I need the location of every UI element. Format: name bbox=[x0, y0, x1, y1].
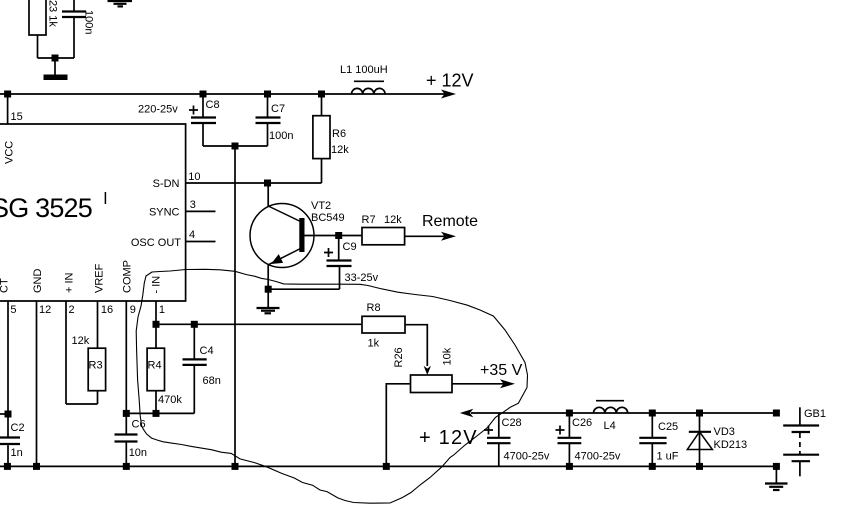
svg-text:10k: 10k bbox=[442, 347, 454, 365]
wire pin 5 lead bbox=[7, 301, 9, 414]
resistor R3 bbox=[88, 348, 105, 391]
resistor R23 bbox=[29, 0, 46, 35]
wire C7 top lead bbox=[267, 94, 269, 118]
node pin1 line C4 bbox=[191, 321, 198, 328]
node rail/C8 bbox=[200, 91, 207, 98]
node rail C2 bbox=[4, 463, 11, 470]
arrow Remote bbox=[441, 232, 456, 241]
svg-text:220-25v: 220-25v bbox=[138, 104, 178, 116]
wire R6 bottom lead bbox=[321, 159, 323, 183]
inductor L4 bbox=[596, 400, 624, 402]
node rail C6 bbox=[123, 463, 130, 470]
svg-text:12k: 12k bbox=[384, 214, 402, 226]
svg-text:C28: C28 bbox=[502, 417, 522, 429]
node ground link bbox=[232, 143, 239, 150]
transistor collector diagonal bbox=[268, 206, 300, 222]
svg-text:1n: 1n bbox=[11, 447, 23, 459]
svg-text:Remote: Remote bbox=[422, 213, 478, 230]
svg-text:9: 9 bbox=[130, 304, 136, 316]
wire R3 bottom lead bbox=[97, 391, 99, 404]
svg-text:SYNC: SYNC bbox=[149, 207, 180, 219]
capacitor C26 plus sign bbox=[556, 426, 565, 435]
node rail C25 bottom bbox=[649, 463, 656, 470]
inductor L1 bbox=[354, 80, 384, 82]
capacitor C8 plus sign bbox=[189, 106, 198, 115]
wire C28 bottom lead bbox=[498, 443, 500, 466]
node pin10/collector bbox=[264, 180, 271, 187]
wire C7 bottom lead bbox=[267, 123, 269, 146]
wire C9 top lead bbox=[338, 236, 340, 261]
capacitor C9 bbox=[327, 259, 352, 261]
node rail/pin15 bbox=[4, 91, 11, 98]
wire R4 bottom lead bbox=[155, 391, 157, 414]
svg-text:C2: C2 bbox=[11, 422, 25, 434]
node rail VD3 bottom bbox=[696, 463, 703, 470]
svg-text:OSC OUT: OSC OUT bbox=[131, 237, 181, 249]
op-amp/PWM IC U1 SG3525 box bbox=[0, 124, 186, 301]
capacitor C4 bbox=[183, 358, 207, 360]
capacitor C28 plus sign bbox=[484, 426, 493, 435]
svg-text:10: 10 bbox=[188, 171, 200, 183]
svg-text:KD213: KD213 bbox=[714, 439, 748, 451]
node emitter/C9 bbox=[265, 286, 272, 293]
wire lower link pin9-R4-C4 bbox=[126, 412, 194, 414]
arrow +35V bbox=[500, 379, 515, 388]
svg-text:33-25v: 33-25v bbox=[345, 272, 379, 284]
svg-text:L4: L4 bbox=[604, 420, 616, 432]
ground top (3-line) bbox=[108, 0, 133, 2]
svg-text:470k: 470k bbox=[158, 394, 182, 406]
capacitor 100n top-left bbox=[62, 10, 86, 12]
svg-text:12: 12 bbox=[39, 304, 51, 316]
wire C9 bottom lead bbox=[339, 266, 341, 289]
svg-text:+ 12V: + 12V bbox=[419, 427, 478, 449]
svg-text:R23 1k: R23 1k bbox=[47, 0, 59, 27]
svg-text:100n: 100n bbox=[269, 130, 293, 142]
svg-text:12k: 12k bbox=[72, 335, 90, 347]
svg-text:4: 4 bbox=[189, 229, 195, 241]
svg-text:1 uF: 1 uF bbox=[657, 451, 679, 463]
wire pin 16 lead bbox=[97, 301, 99, 348]
svg-text:1k: 1k bbox=[368, 338, 380, 350]
svg-text:C9: C9 bbox=[343, 241, 357, 253]
node output rail right end bbox=[773, 410, 780, 417]
svg-text:12k: 12k bbox=[331, 144, 349, 156]
svg-text:+35 V: +35 V bbox=[480, 362, 523, 379]
wire R23 bottom lead bbox=[37, 35, 39, 58]
transistor emitter diagonal bbox=[268, 249, 300, 265]
wire bottom ground rail bbox=[0, 465, 776, 467]
svg-text:5: 5 bbox=[10, 304, 16, 316]
diode VD3 bbox=[699, 413, 701, 466]
wire C2 top lead bbox=[7, 414, 9, 438]
svg-text:- IN: - IN bbox=[151, 276, 163, 294]
ground under transistor bbox=[267, 289, 269, 308]
svg-text:R3: R3 bbox=[89, 360, 103, 372]
svg-text:COMP: COMP bbox=[122, 260, 134, 293]
wire pin1 to R8 bbox=[156, 323, 362, 325]
capacitor C7 bbox=[256, 116, 281, 118]
svg-text:4700-25v: 4700-25v bbox=[504, 451, 550, 463]
svg-text:1: 1 bbox=[159, 304, 165, 316]
node rail VD3 top bbox=[696, 410, 703, 417]
wire pin 3 stub bbox=[186, 210, 216, 212]
svg-text:R8: R8 bbox=[367, 302, 381, 314]
svg-text:C25: C25 bbox=[658, 421, 678, 433]
svg-text:R26: R26 bbox=[393, 347, 405, 367]
wire C8 bottom lead bbox=[202, 123, 204, 146]
node rail C25 top bbox=[649, 410, 656, 417]
wire C26 top lead bbox=[568, 413, 570, 438]
arrow +12V bbox=[441, 90, 456, 99]
wire pin 9 lead bbox=[125, 301, 127, 435]
svg-text:100n: 100n bbox=[83, 10, 95, 34]
wire freeform feedback loop curve bbox=[136, 269, 527, 503]
wire C4 bottom lead bbox=[193, 365, 195, 414]
capacitor C8 bbox=[191, 116, 216, 118]
wire R23 to C100n bbox=[38, 57, 75, 59]
wire 100n bottom lead bbox=[73, 17, 75, 58]
wire long ground line bbox=[234, 146, 236, 466]
wire C25 top lead bbox=[651, 413, 653, 438]
transistor emitter arrow bbox=[271, 254, 283, 264]
arrow wiper down bbox=[424, 366, 431, 375]
svg-text:15: 15 bbox=[11, 111, 23, 123]
capacitor C28 bbox=[487, 437, 511, 439]
wire node to left edge bbox=[0, 413, 8, 415]
node pin5/C2 bbox=[5, 411, 12, 418]
svg-text:GB1: GB1 bbox=[804, 408, 826, 420]
node R4 bottom bbox=[153, 410, 160, 417]
wire C4 top lead bbox=[193, 324, 195, 359]
capacitor C6 bbox=[115, 433, 138, 435]
wire C25 bottom lead bbox=[651, 443, 653, 466]
node rail C26 bottom bbox=[566, 463, 573, 470]
svg-text:R4: R4 bbox=[148, 360, 162, 372]
node rail C26 top bbox=[566, 410, 573, 417]
node pin9/C6 bbox=[123, 410, 130, 417]
wire collector lead bbox=[267, 183, 269, 206]
cursor tick bbox=[104, 192, 106, 204]
wire 100n top lead bbox=[73, 0, 75, 12]
node rail/C7 bbox=[264, 91, 271, 98]
svg-text:C4: C4 bbox=[200, 345, 214, 357]
wire R8 right to wiper bbox=[405, 325, 427, 366]
capacitor C26 bbox=[558, 437, 582, 439]
wire pin 4 stub bbox=[186, 241, 216, 243]
wire C28 top lead bbox=[498, 413, 500, 438]
svg-text:4700-25v: 4700-25v bbox=[575, 451, 621, 463]
wire pin15 bbox=[7, 94, 9, 124]
wire pin 10 S-DN line bbox=[186, 182, 322, 184]
svg-text:SG 3525: SG 3525 bbox=[0, 193, 92, 223]
resistor R4 bbox=[147, 348, 164, 391]
wire pin 2 lead bbox=[65, 301, 67, 404]
resistor R6 bbox=[313, 116, 330, 159]
capacitor C25 bbox=[639, 437, 666, 439]
svg-text:GND: GND bbox=[32, 269, 44, 294]
wire C8-C7 ground link bbox=[203, 145, 268, 147]
svg-text:3: 3 bbox=[190, 199, 196, 211]
svg-text:+ IN: + IN bbox=[64, 272, 76, 293]
arrow left output rail bbox=[460, 409, 474, 417]
wire R7 to Remote arrow bbox=[405, 235, 445, 237]
node rail pin12 bbox=[33, 463, 40, 470]
node pot lead rail bbox=[383, 463, 390, 470]
node base/C9 bbox=[335, 232, 342, 239]
wire output rail bbox=[471, 412, 776, 414]
wire +12V top rail bbox=[0, 93, 445, 95]
node rail ground line bbox=[232, 463, 239, 470]
transistor base bar bbox=[299, 218, 304, 252]
svg-text:BC549: BC549 bbox=[311, 212, 345, 224]
capacitor C9 plus sign bbox=[324, 248, 333, 257]
svg-text:L1 100uH: L1 100uH bbox=[340, 64, 388, 76]
wire emitter to C9 bottom bbox=[268, 288, 339, 290]
svg-text:VD3: VD3 bbox=[714, 426, 735, 438]
node ground rail right end bbox=[773, 463, 780, 470]
potentiometer R26 bbox=[411, 375, 453, 393]
svg-text:R6: R6 bbox=[332, 128, 346, 140]
svg-text:68n: 68n bbox=[203, 375, 221, 387]
wire base to R7 bbox=[302, 235, 362, 237]
wire R6 top lead bbox=[321, 94, 323, 116]
svg-text:C26: C26 bbox=[572, 417, 592, 429]
wire pin2-R3 link bbox=[66, 403, 98, 405]
battery GB1 bbox=[799, 407, 801, 425]
resistor R8 bbox=[362, 316, 405, 333]
wire pot right to +35V arrow bbox=[452, 383, 504, 385]
node junction R23/C/ground bbox=[52, 55, 59, 62]
capacitor C2 bbox=[0, 436, 20, 438]
wire pin 1 lead bbox=[155, 301, 157, 348]
svg-text:CT: CT bbox=[0, 278, 11, 293]
svg-text:+ 12V: + 12V bbox=[426, 71, 474, 91]
wire pot left lead bbox=[386, 384, 410, 467]
transistor VT2 BC549 circle bbox=[250, 204, 314, 268]
svg-text:16: 16 bbox=[101, 304, 113, 316]
svg-text:VCC: VCC bbox=[4, 141, 16, 164]
svg-text:2: 2 bbox=[69, 304, 75, 316]
resistor R7 bbox=[362, 228, 405, 245]
ground bottom right bbox=[775, 466, 777, 483]
svg-text:R7: R7 bbox=[362, 214, 376, 226]
ground (bar style) bbox=[44, 75, 68, 81]
svg-text:VT2: VT2 bbox=[311, 200, 331, 212]
wire C26 bottom lead bbox=[568, 443, 570, 466]
wire C2 bottom lead bbox=[7, 444, 9, 466]
wire emitter lead bbox=[267, 265, 269, 289]
svg-text:C8: C8 bbox=[206, 99, 220, 111]
wire C6 bottom lead bbox=[125, 442, 127, 467]
node pin1 line left bbox=[153, 321, 160, 328]
svg-text:C7: C7 bbox=[271, 103, 285, 115]
node rail/R6 bbox=[318, 91, 325, 98]
wire ground stem bbox=[54, 58, 56, 75]
svg-text:S-DN: S-DN bbox=[153, 178, 180, 190]
svg-text:VREF: VREF bbox=[94, 263, 106, 293]
wire pin 12 lead bbox=[36, 301, 38, 466]
svg-text:10n: 10n bbox=[129, 447, 147, 459]
wire C8 top lead bbox=[202, 94, 204, 118]
